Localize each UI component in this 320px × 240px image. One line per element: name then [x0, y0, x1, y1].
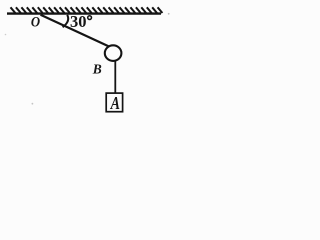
- block A box: [106, 93, 122, 112]
- ball B: [105, 45, 122, 61]
- ceiling line: [7, 12, 161, 14]
- svg-text:30: 30: [70, 12, 87, 31]
- degree mark of 30: [88, 16, 92, 20]
- faint scan speck near label 30: [168, 13, 170, 15]
- svg-text:A: A: [110, 94, 120, 113]
- faint scan speck bottom left: [32, 103, 34, 105]
- rope OB (30 degree string): [41, 15, 109, 47]
- faint scan speck left: [5, 34, 7, 36]
- string from B to block A (wire): [114, 61, 116, 94]
- angle arc: [63, 15, 69, 27]
- svg-text:B: B: [92, 61, 102, 76]
- ceiling hatching: [11, 7, 163, 13]
- svg-text:O: O: [31, 15, 40, 31]
